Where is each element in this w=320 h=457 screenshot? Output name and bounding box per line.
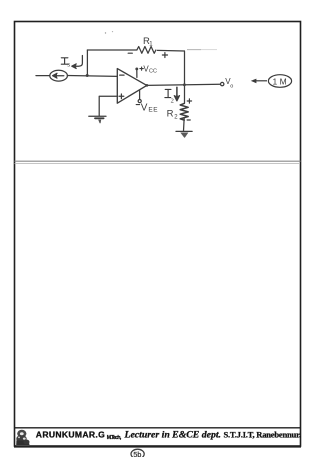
svg-text:M.Tech,: M.Tech, [107,435,122,441]
section separator double line [15,160,301,162]
Is current corner arrow [73,56,82,67]
label Is [61,58,68,64]
wire non-inverting input [99,96,117,115]
label minus R1 [128,52,132,54]
wire feedback tap vertical [86,50,88,76]
resistor R2 zigzag vertical [180,103,188,120]
page number ellipse [131,449,144,457]
footer logo [16,430,29,445]
svg-text:V: V [141,103,148,114]
label -Vee [136,104,139,106]
svg-text:s: s [67,61,70,69]
wire R1 to corner [157,49,184,52]
node output junction [146,84,149,87]
wire feedback down vertical [184,51,186,103]
Vcc lead [136,70,138,78]
wire feedback horizontal [87,49,136,51]
op-amp minus input mark [120,74,124,76]
terminal Vo open circle [221,82,224,85]
circuit text labels [61,36,233,120]
faint erased stroke top right [187,49,201,51]
footer separator line [15,427,301,429]
svg-text:R: R [167,108,174,119]
svg-text:S.T.J.I.T, Ranebennur.: S.T.J.I.T, Ranebennur. [224,430,302,440]
svg-text:2: 2 [171,97,174,104]
svg-text:CC: CC [149,69,157,75]
footer text [36,430,301,441]
I2 down arrow [176,87,178,98]
ground R2 [176,130,192,132]
svg-text:ARUNKUMAR.G: ARUNKUMAR.G [36,430,105,440]
node junction [86,74,89,77]
svg-text:o: o [230,84,233,90]
faint dots [105,32,106,33]
current source Is [50,70,68,81]
Vee lead [139,90,141,99]
ground non-inverting [89,115,106,117]
label +Vcc [140,67,143,70]
wire source to op-amp inverting input [67,75,117,78]
op-amp U1 triangle [117,69,147,104]
current source arrow [55,75,64,77]
label plus R1 [162,53,167,58]
annotation arrow left [254,80,267,82]
wire input left segment [36,75,50,77]
wire R2 to ground [183,118,186,131]
wire output [147,84,221,85]
svg-text:1 M: 1 M [273,76,287,86]
annotation 1M ellipse [251,75,292,88]
label + R2 [187,99,191,103]
op-amp plus input mark [119,94,124,99]
svg-text:5b: 5b [133,450,141,457]
svg-text:Lecturer in E&CE dept.: Lecturer in E&CE dept. [124,430,222,441]
label I2 [165,89,171,97]
label - R2 [187,119,190,121]
resistor R1 zigzag [137,47,156,54]
svg-text:EE: EE [148,106,158,113]
